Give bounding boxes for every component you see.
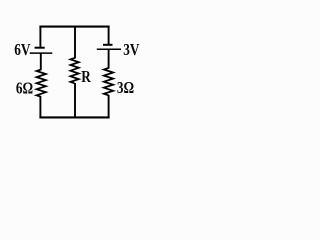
resistor R zigzag	[71, 58, 79, 83]
wire right branch upper	[108, 26, 110, 44]
svg-text:R: R	[81, 67, 91, 86]
wire right branch middle	[108, 49, 110, 68]
battery 3V long plate	[97, 48, 121, 50]
battery 6V short plate	[35, 47, 45, 49]
wire right branch lower	[108, 95, 110, 118]
svg-text:6V: 6V	[14, 40, 30, 59]
battery 3V short plate	[103, 44, 113, 46]
wire left branch middle	[40, 53, 42, 70]
top rail wire	[39, 26, 109, 28]
resistor 3-ohm zigzag	[104, 68, 113, 95]
wire middle branch upper	[74, 26, 76, 59]
resistor 6-ohm zigzag	[37, 70, 46, 97]
wire left branch upper	[39, 26, 41, 47]
svg-text:3V: 3V	[123, 40, 139, 59]
svg-text:6Ω: 6Ω	[16, 79, 33, 98]
svg-text:3Ω: 3Ω	[117, 79, 134, 98]
battery 6V long plate	[30, 52, 53, 54]
wire left branch lower	[39, 97, 41, 119]
wire middle branch lower	[74, 83, 76, 118]
bottom rail wire	[39, 116, 109, 118]
